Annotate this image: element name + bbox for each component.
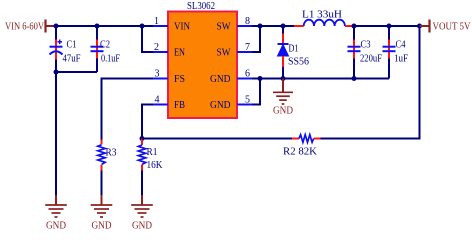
svg-text:16K: 16K [147, 160, 164, 171]
svg-text:1uF: 1uF [394, 54, 408, 65]
node GND rail join [258, 76, 263, 81]
svg-text:220uF: 220uF [360, 54, 382, 65]
svg-text:GND: GND [210, 74, 231, 85]
svg-text:FS: FS [174, 74, 185, 85]
svg-text:SW: SW [217, 22, 232, 33]
pin 6 GND [237, 78, 252, 80]
pin 8 SW [237, 25, 252, 27]
svg-text:SL3062: SL3062 [187, 1, 215, 12]
wire FB to junction [142, 105, 153, 139]
wire C1 junction to GND [55, 72, 57, 195]
capacitor C1 [50, 26, 81, 72]
inductor L1 [294, 10, 354, 27]
svg-text:GND: GND [210, 100, 231, 111]
node C3 bottom junction [352, 76, 357, 81]
svg-text:SW: SW [217, 48, 232, 59]
ground GND2 [91, 195, 113, 232]
wire C2 bottom to C1 bottom [56, 71, 97, 73]
svg-text:D1: D1 [289, 44, 299, 55]
port VOUT [420, 20, 471, 33]
diode D1 [278, 26, 310, 79]
svg-text:8: 8 [245, 16, 250, 27]
node SW join [258, 24, 263, 29]
capacitor C2 [91, 26, 121, 72]
svg-text:EN: EN [174, 48, 185, 59]
pin 7 SW [237, 51, 252, 53]
node VOUT junction [417, 24, 422, 29]
svg-text:2: 2 [154, 42, 159, 53]
pin 4 FB [153, 104, 168, 106]
pin 1 VIN [153, 25, 168, 27]
resistor R3 [98, 140, 117, 171]
resistor R2 [283, 135, 321, 158]
wire GND rail from pin 6 [252, 78, 389, 80]
wire R2 to VOUT rail [321, 26, 420, 139]
svg-text:FB: FB [174, 100, 185, 111]
pin 3 FS [153, 78, 168, 80]
svg-text:C1: C1 [67, 40, 77, 51]
node VIN-C1 junction [54, 24, 59, 29]
wire GND pin 5 riser [252, 79, 260, 105]
ground GND4 under D1 [273, 79, 293, 117]
resistor R1 [138, 139, 163, 172]
svg-text:GND: GND [92, 221, 112, 232]
wire R3 to GND [101, 171, 103, 196]
svg-text:R1: R1 [147, 147, 158, 158]
capacitor C4 [383, 26, 409, 79]
node D1 top junction [281, 24, 286, 29]
wire FB junction to R2 [142, 138, 292, 140]
node C3 top junction [352, 24, 357, 29]
wire R1 to GND [141, 171, 143, 196]
wire FS to R3 [102, 79, 154, 140]
node C1-C2 bottom junction [54, 70, 59, 75]
svg-text:7: 7 [245, 42, 250, 53]
svg-text:GND: GND [132, 221, 152, 232]
svg-text:R3: R3 [106, 148, 117, 159]
svg-text:GND: GND [273, 106, 293, 117]
svg-text:6: 6 [245, 68, 250, 79]
svg-text:VOUT 5V: VOUT 5V [433, 22, 471, 33]
pin 5 GND [237, 104, 252, 106]
svg-text:3: 3 [155, 68, 160, 79]
svg-text:47uF: 47uF [63, 54, 81, 65]
svg-text:C2: C2 [100, 40, 110, 51]
svg-text:R2 82K: R2 82K [283, 147, 318, 158]
svg-text:C4: C4 [396, 40, 406, 51]
port VIN [5, 20, 56, 33]
svg-text:GND: GND [46, 221, 66, 232]
svg-text:1: 1 [154, 16, 159, 27]
wire EN link [142, 26, 153, 52]
node C4 top junction [387, 24, 392, 29]
svg-text:4: 4 [155, 94, 160, 105]
svg-text:0.1uF: 0.1uF [101, 54, 120, 65]
wire SW rail from pin 8 [252, 25, 294, 27]
svg-text:SS56: SS56 [288, 57, 309, 68]
capacitor C3 [348, 26, 383, 79]
op-amp/regulator U1 SL3062 [153, 1, 252, 118]
wire SW pin 7 riser [252, 26, 260, 52]
ground GND1 [45, 195, 67, 232]
svg-text:C3: C3 [361, 40, 371, 51]
pin 2 EN [153, 51, 168, 53]
ground GND3 [131, 195, 153, 232]
svg-text:5: 5 [245, 94, 250, 105]
svg-text:VIN 6-60V: VIN 6-60V [5, 22, 44, 33]
node D1 bottom junction [281, 76, 286, 81]
node C2 top junction [95, 24, 100, 29]
wire L1 to VOUT port [354, 25, 420, 27]
svg-text:VIN: VIN [174, 22, 190, 33]
node EN tap junction [140, 24, 145, 29]
node FB junction [140, 136, 145, 141]
wire VIN top rail [56, 25, 168, 27]
svg-text:L1 33uH: L1 33uH [302, 10, 342, 21]
